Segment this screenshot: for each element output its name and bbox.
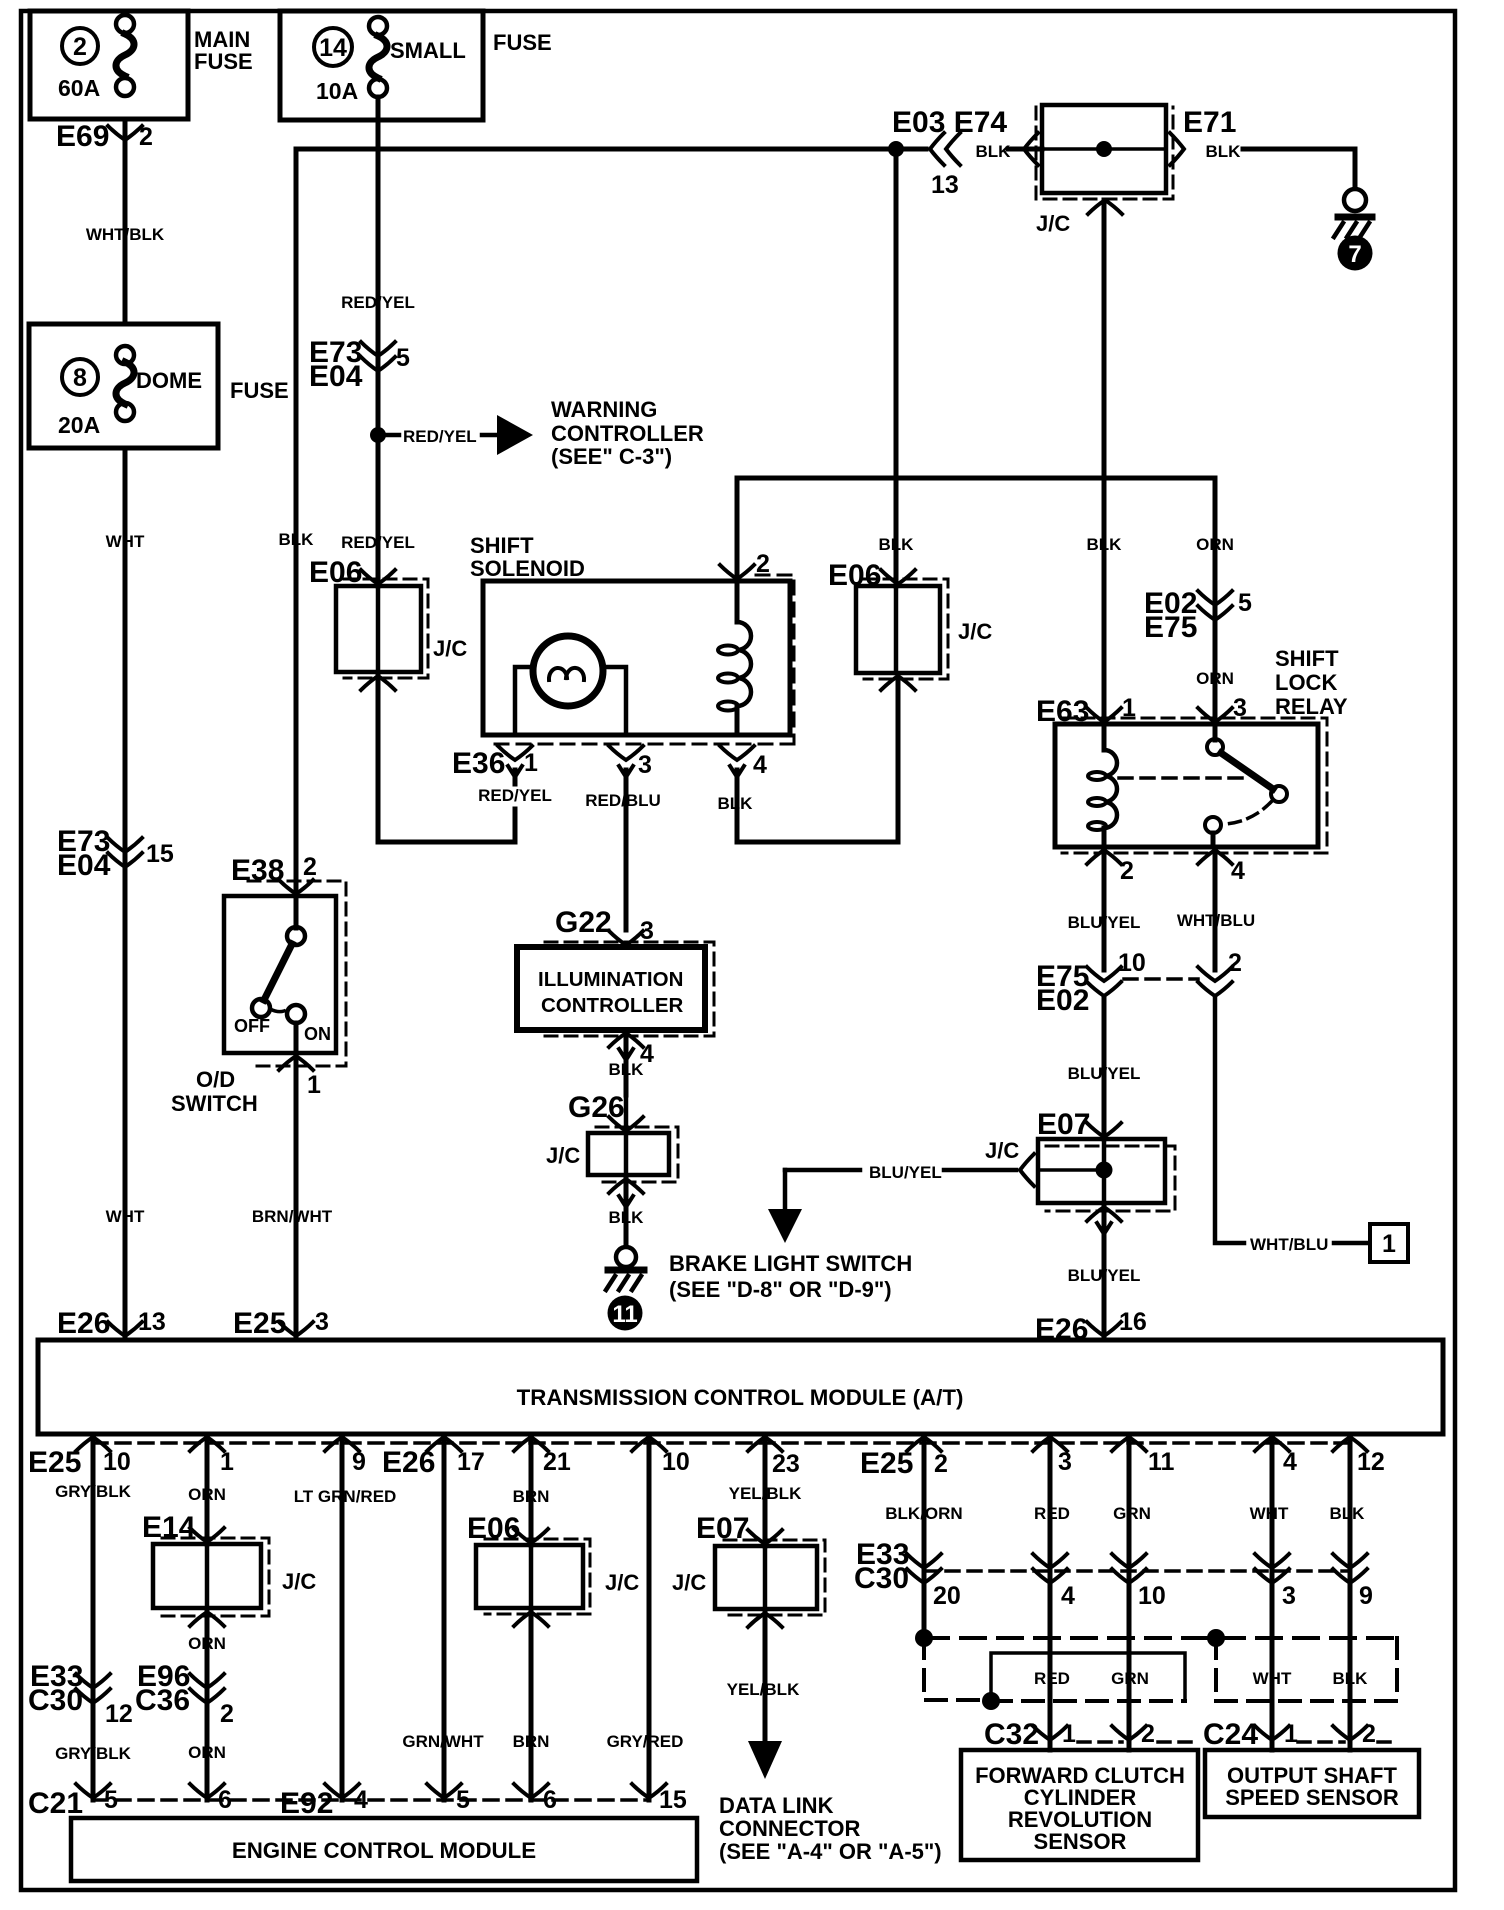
connector E92 pin 6 — [514, 1784, 548, 1798]
transmission control module box — [38, 1340, 1443, 1434]
wire dashed connector row below TCM — [93, 1441, 1350, 1445]
connector E26 pin 21 — [514, 1437, 548, 1451]
svg-text:BLK: BLK — [609, 1060, 645, 1079]
svg-text:SPEED SENSOR: SPEED SENSOR — [1225, 1785, 1399, 1810]
svg-text:2: 2 — [73, 33, 87, 61]
svg-text:10: 10 — [1138, 1582, 1166, 1610]
svg-text:10: 10 — [103, 1448, 131, 1476]
svg-text:10: 10 — [1118, 949, 1146, 977]
svg-text:FUSE: FUSE — [194, 49, 253, 74]
svg-text:5: 5 — [104, 1786, 118, 1814]
connector E26 pin 23 — [748, 1437, 782, 1451]
lamp symbol in solenoid — [533, 636, 603, 706]
connector E38 pin 1 — [279, 1056, 313, 1070]
wire WHT/BLU relay down — [1213, 850, 1218, 970]
connector E92 pin 4 — [325, 1784, 359, 1798]
svg-text:ORN: ORN — [188, 1743, 226, 1762]
connector E73/E04 pin 5 — [361, 342, 395, 356]
svg-text:60A: 60A — [58, 75, 100, 101]
wire BLK/ORN E25 pin2 down — [922, 1437, 927, 1638]
svg-text:10: 10 — [662, 1448, 690, 1476]
fuse box 14 SMALL FUSE — [280, 11, 483, 120]
svg-text:G22: G22 — [555, 906, 612, 939]
wire RED/YEL from J/C to E36 pin 1 — [378, 676, 515, 842]
svg-text:1: 1 — [1382, 1230, 1396, 1258]
connector C21 pin 5 — [76, 1784, 110, 1798]
connector E33/C30 pin 9 — [1333, 1554, 1367, 1568]
svg-text:11: 11 — [612, 1301, 637, 1328]
svg-text:9: 9 — [352, 1448, 366, 1476]
wire LT GRN/RED pin9 to E92 pin4 — [340, 1437, 345, 1800]
wire WHT/BLK — [123, 119, 128, 324]
svg-text:2: 2 — [1228, 949, 1242, 977]
svg-text:C30: C30 — [854, 1562, 909, 1595]
svg-text:4: 4 — [1061, 1582, 1075, 1610]
svg-text:BRN: BRN — [513, 1487, 550, 1506]
connector E36 dashed outline — [490, 575, 794, 744]
svg-text:13: 13 — [138, 1308, 166, 1336]
wire dashed shield drain bus — [924, 1636, 1397, 1640]
wire BLU/YEL to E07 J/C — [1102, 996, 1107, 1139]
svg-text:(SEE" C-3"): (SEE" C-3") — [551, 444, 672, 469]
svg-text:E36: E36 — [452, 747, 505, 780]
svg-text:5: 5 — [396, 344, 410, 372]
svg-text:C24: C24 — [1203, 1718, 1258, 1751]
svg-text:BLU/YEL: BLU/YEL — [1068, 913, 1141, 932]
svg-text:BLU/YEL: BLU/YEL — [1068, 1266, 1141, 1285]
svg-text:WHT/BLU: WHT/BLU — [1177, 911, 1255, 930]
connector E75/E02 pin 10 — [1087, 967, 1121, 981]
wire BRN pin21 to E06 J/C — [529, 1437, 534, 1545]
svg-text:C32: C32 — [984, 1718, 1039, 1751]
wire YEL/BLK to data link arrow — [763, 1613, 768, 1741]
wire BLK from pin 4 to E06 J/C — [737, 679, 898, 842]
svg-text:C36: C36 — [135, 1684, 190, 1717]
connector E33/C30 pin 20 — [907, 1554, 941, 1568]
svg-text:J/C: J/C — [546, 1143, 580, 1168]
svg-text:2: 2 — [1362, 1720, 1376, 1748]
svg-text:J/C: J/C — [605, 1570, 639, 1595]
svg-text:5: 5 — [1238, 589, 1252, 617]
svg-text:GRY/BLK: GRY/BLK — [55, 1744, 132, 1763]
connector E92 pin 15 — [632, 1784, 666, 1798]
svg-text:13: 13 — [931, 171, 959, 199]
relay coil — [1102, 724, 1107, 750]
svg-text:FUSE: FUSE — [230, 378, 289, 403]
svg-text:11: 11 — [1148, 1448, 1175, 1476]
svg-text:4: 4 — [1283, 1448, 1297, 1476]
svg-text:3: 3 — [315, 1308, 329, 1336]
svg-text:E26: E26 — [382, 1446, 435, 1479]
svg-text:7: 7 — [1348, 241, 1361, 268]
connector E25 pin 4 — [1255, 1437, 1289, 1451]
svg-text:CONNECTOR: CONNECTOR — [719, 1816, 860, 1841]
svg-text:BLU/YEL: BLU/YEL — [1068, 1064, 1141, 1083]
wire YEL/BLK pin23 to E07 J/C — [763, 1437, 768, 1546]
svg-text:YEL/BLK: YEL/BLK — [727, 1680, 800, 1699]
svg-text:WHT/BLK: WHT/BLK — [86, 225, 165, 244]
svg-text:G26: G26 — [568, 1091, 625, 1124]
svg-text:J/C: J/C — [985, 1138, 1019, 1163]
svg-text:8: 8 — [73, 364, 87, 392]
svg-text:1: 1 — [307, 1071, 321, 1099]
svg-text:WHT/BLU: WHT/BLU — [1250, 1235, 1328, 1254]
svg-text:1: 1 — [220, 1448, 234, 1476]
node shield drain left — [915, 1629, 933, 1647]
svg-text:12: 12 — [1357, 1448, 1385, 1476]
svg-text:J/C: J/C — [1036, 211, 1070, 236]
svg-text:9: 9 — [1359, 1582, 1373, 1610]
brake light switch arrow — [783, 1170, 788, 1209]
svg-text:GRY/BLK: GRY/BLK — [55, 1482, 132, 1501]
connector E25 pin 3 — [279, 1322, 313, 1336]
svg-text:GRN/WHT: GRN/WHT — [402, 1732, 484, 1751]
svg-text:BRAKE LIGHT SWITCH: BRAKE LIGHT SWITCH — [669, 1251, 912, 1276]
svg-text:20: 20 — [933, 1582, 961, 1610]
svg-text:TRANSMISSION CONTROL MODULE (A: TRANSMISSION CONTROL MODULE (A/T) — [517, 1385, 964, 1410]
wire BLK E71 to E63 — [1102, 200, 1107, 724]
wire BLK vertical from top corner — [294, 149, 299, 896]
svg-text:RELAY: RELAY — [1275, 694, 1348, 719]
wire BLK to ground 11 — [624, 1179, 629, 1246]
wire GRN into C32 — [1127, 1653, 1132, 1750]
connector E69 pin 2 — [108, 126, 142, 140]
svg-text:E75: E75 — [1144, 611, 1197, 644]
svg-text:4: 4 — [753, 751, 767, 779]
wire ORN TCM pin1 to E14 — [205, 1437, 210, 1544]
shield box forward clutch sensor — [991, 1653, 1185, 1701]
connector E02/E75 pin 5 — [1198, 591, 1232, 605]
svg-text:SENSOR: SENSOR — [1034, 1829, 1127, 1854]
connector E63 pin 3 — [1198, 708, 1232, 722]
svg-text:BLK: BLK — [279, 530, 315, 549]
connector E73/E04 pin 15 — [108, 838, 142, 852]
wire BLK E25 pin12 down — [1348, 1437, 1353, 1653]
svg-text:J/C: J/C — [672, 1570, 706, 1595]
svg-text:6: 6 — [543, 1786, 557, 1814]
wire RED/YEL from fuse 14 — [376, 97, 381, 586]
connector G22 pin 4 — [609, 1033, 643, 1047]
svg-text:ENGINE CONTROL MODULE: ENGINE CONTROL MODULE — [232, 1838, 536, 1863]
svg-text:BLK: BLK — [1206, 142, 1242, 161]
svg-text:C21: C21 — [28, 1787, 83, 1820]
svg-text:15: 15 — [146, 840, 174, 868]
svg-text:WHT: WHT — [106, 532, 145, 551]
O/D switch contacts — [294, 896, 299, 928]
connector E25 pin 12 — [1333, 1437, 1367, 1451]
wire dashed drain to left shield — [924, 1638, 985, 1700]
svg-text:2: 2 — [1120, 857, 1134, 885]
connector E25 pin 9 — [325, 1437, 359, 1451]
wire BLU/YEL to E26 pin 16 — [1102, 1207, 1107, 1340]
node E03 junction — [888, 141, 904, 157]
svg-text:LT GRN/RED: LT GRN/RED — [294, 1487, 397, 1506]
connector E26 pin 16 — [1087, 1322, 1121, 1336]
output shaft speed sensor box — [1205, 1750, 1419, 1817]
wire RED/YEL branch to warning controller — [386, 433, 399, 438]
svg-text:1: 1 — [1062, 1720, 1076, 1748]
svg-text:SHIFT: SHIFT — [1275, 646, 1339, 671]
svg-text:ILLUMINATION: ILLUMINATION — [538, 968, 683, 991]
svg-text:2: 2 — [1141, 1720, 1155, 1748]
svg-text:4: 4 — [1231, 857, 1245, 885]
svg-text:BLK: BLK — [718, 794, 754, 813]
svg-text:RED/YEL: RED/YEL — [403, 427, 477, 446]
svg-text:BLK/ORN: BLK/ORN — [885, 1504, 962, 1523]
svg-text:E02: E02 — [1036, 984, 1089, 1017]
svg-text:SHIFT: SHIFT — [470, 533, 534, 558]
svg-text:WHT: WHT — [1250, 1504, 1289, 1523]
connector C24 pin 2 — [1333, 1726, 1367, 1740]
forward clutch cylinder revolution sensor box — [961, 1750, 1198, 1860]
svg-text:2: 2 — [139, 123, 153, 151]
svg-text:ORN: ORN — [1196, 669, 1234, 688]
svg-text:21: 21 — [543, 1448, 571, 1476]
connector E25 pin 3b — [1033, 1437, 1067, 1451]
svg-text:RED: RED — [1034, 1504, 1070, 1523]
svg-text:2: 2 — [934, 1450, 948, 1478]
svg-text:E26: E26 — [57, 1307, 110, 1340]
wire RED E25 pin3 down — [1048, 1437, 1053, 1653]
fuse box 2 MAIN FUSE — [30, 11, 188, 119]
svg-text:23: 23 — [772, 1450, 800, 1478]
svg-text:(SEE "A-4" OR "A-5"): (SEE "A-4" OR "A-5") — [719, 1839, 942, 1864]
shield box output shaft sensor — [1216, 1638, 1397, 1701]
wire WHT into C24 — [1270, 1653, 1275, 1750]
illumination controller box — [517, 947, 705, 1030]
svg-text:C30: C30 — [28, 1684, 83, 1717]
connector C21 pin 6 — [190, 1784, 224, 1798]
coil symbol in solenoid pin2-pin4 — [735, 581, 740, 622]
O/D switch box — [224, 896, 336, 1053]
svg-text:YEL/BLK: YEL/BLK — [729, 1484, 802, 1503]
svg-text:2: 2 — [220, 1700, 234, 1728]
junction box E71 J/C — [1042, 105, 1166, 193]
svg-text:BLK: BLK — [1087, 535, 1123, 554]
connector E26 pin 13 — [108, 1322, 142, 1336]
svg-text:DATA LINK: DATA LINK — [719, 1793, 834, 1818]
svg-text:3: 3 — [638, 751, 652, 779]
svg-text:E04: E04 — [309, 360, 363, 393]
connector E33/C30 pin 12 — [76, 1674, 110, 1688]
svg-text:3: 3 — [1282, 1582, 1296, 1610]
connector E25 pin 2 — [907, 1437, 941, 1451]
wire RED into C32 — [1048, 1653, 1053, 1750]
svg-text:BLK: BLK — [879, 535, 915, 554]
node shield drain right — [1207, 1629, 1225, 1647]
svg-text:BLK: BLK — [976, 142, 1012, 161]
svg-text:CONTROLLER: CONTROLLER — [541, 994, 684, 1017]
svg-text:10A: 10A — [316, 78, 358, 104]
connector (E75/E02 row) pin 2 — [1198, 967, 1232, 981]
svg-text:RED/YEL: RED/YEL — [341, 533, 415, 552]
svg-text:ORN: ORN — [188, 1485, 226, 1504]
wire BRN/WHT — [294, 1056, 299, 1340]
svg-text:OFF: OFF — [234, 1016, 270, 1036]
wire WHT E25 pin4 down — [1270, 1437, 1275, 1653]
svg-text:BRN/WHT: BRN/WHT — [252, 1207, 333, 1226]
svg-text:E04: E04 — [57, 849, 111, 882]
svg-text:CONTROLLER: CONTROLLER — [551, 421, 704, 446]
connector E63 pin 4 — [1198, 850, 1232, 864]
fuse element F2 — [116, 15, 134, 33]
svg-text:ORN: ORN — [1196, 535, 1234, 554]
connector E26 pin 17 — [427, 1437, 461, 1451]
svg-text:1: 1 — [1284, 1720, 1298, 1748]
svg-text:12: 12 — [105, 1700, 133, 1728]
svg-text:RED/YEL: RED/YEL — [341, 293, 415, 312]
svg-text:ORN: ORN — [188, 1634, 226, 1653]
svg-text:BLK: BLK — [1330, 1504, 1366, 1523]
ground G11 — [616, 1247, 636, 1267]
connector E92 pin 5 — [427, 1784, 461, 1798]
svg-text:17: 17 — [457, 1448, 485, 1476]
fuse element F8 — [116, 346, 134, 364]
svg-text:SOLENOID: SOLENOID — [470, 556, 585, 581]
svg-text:20A: 20A — [58, 412, 100, 438]
connector E36 pin 4 — [720, 746, 754, 760]
svg-text:E69: E69 — [56, 120, 109, 153]
connector E03 E74 pin 13 — [930, 133, 944, 165]
ground G7 — [1344, 189, 1366, 211]
svg-text:LOCK: LOCK — [1275, 670, 1337, 695]
svg-text:14: 14 — [319, 34, 347, 62]
svg-text:SMALL: SMALL — [390, 38, 466, 63]
svg-text:(SEE "D-8" OR "D-9"): (SEE "D-8" OR "D-9") — [669, 1277, 892, 1302]
wire dashed connector link — [1124, 977, 1198, 981]
svg-text:J/C: J/C — [958, 619, 992, 644]
wire WHT (left line down to TCM) — [123, 448, 128, 1340]
svg-text:RED/YEL: RED/YEL — [478, 786, 552, 805]
svg-text:ON: ON — [304, 1024, 331, 1044]
wire dashed connector row C21/E92 — [93, 1798, 649, 1802]
connector E36 pin 1 — [498, 746, 532, 760]
svg-text:GRY/RED: GRY/RED — [607, 1732, 684, 1751]
connector E96/C36 pin 2 — [190, 1674, 224, 1688]
wire BLK vertical from E03 node through bus — [894, 149, 899, 586]
svg-text:1: 1 — [524, 749, 538, 777]
svg-text:E07: E07 — [1037, 1108, 1090, 1141]
connector pin 2 top of solenoid — [735, 478, 740, 581]
connector E63 pin 2 — [1087, 850, 1121, 864]
wire horizontal bus y478 — [737, 476, 1215, 481]
fuse element F14 — [369, 17, 387, 35]
wire top horizontal BLK bus — [296, 147, 896, 152]
svg-text:E25: E25 — [233, 1307, 286, 1340]
svg-text:E25: E25 — [28, 1446, 81, 1479]
svg-text:GRN: GRN — [1113, 1504, 1151, 1523]
fuse box 8 DOME FUSE — [29, 324, 218, 448]
svg-text:BLK: BLK — [609, 1208, 645, 1227]
svg-text:WHT: WHT — [106, 1207, 145, 1226]
svg-text:SWITCH: SWITCH — [171, 1091, 258, 1116]
svg-text:15: 15 — [659, 1786, 687, 1814]
wire GRY/RED pin10 to E92 pin15 — [647, 1437, 652, 1800]
svg-text:FUSE: FUSE — [493, 30, 552, 55]
svg-text:BLU/YEL: BLU/YEL — [869, 1163, 942, 1182]
svg-text:J/C: J/C — [282, 1569, 316, 1594]
connector E36 pin 3 — [609, 746, 643, 760]
svg-text:5: 5 — [456, 1786, 470, 1814]
node junction RED/YEL branch — [370, 427, 386, 443]
wire WHT/BLU to circuit 1 — [1215, 996, 1244, 1243]
svg-text:16: 16 — [1119, 1308, 1147, 1336]
svg-text:E71: E71 — [1183, 106, 1236, 139]
wire GRN/WHT pin17 to E92 pin5 — [442, 1437, 447, 1800]
svg-text:WARNING: WARNING — [551, 397, 657, 422]
wire BLK into C24 — [1348, 1653, 1353, 1750]
svg-text:E03 E74: E03 E74 — [892, 106, 1007, 139]
svg-text:6: 6 — [218, 1786, 232, 1814]
wire RED/BLU from pin 3 to G22 — [624, 770, 629, 930]
svg-text:2: 2 — [303, 853, 317, 881]
wire GRY/BLK TCM to C21 — [91, 1437, 96, 1800]
shift lock relay box — [1055, 724, 1318, 847]
svg-text:E92: E92 — [280, 1787, 333, 1820]
wire BLU/YEL relay to E75/E02 — [1102, 850, 1107, 970]
connector E25 pin 1 — [190, 1437, 224, 1451]
wire ORN right bus drop — [1213, 478, 1218, 724]
svg-text:J/C: J/C — [433, 636, 467, 661]
svg-text:DOME: DOME — [136, 368, 202, 393]
wire GRN E25 pin11 down — [1127, 1437, 1132, 1653]
connector E33/C30 pin 10 — [1112, 1554, 1146, 1568]
svg-text:O/D: O/D — [196, 1067, 235, 1092]
engine control module box — [71, 1818, 697, 1881]
svg-text:E25: E25 — [860, 1447, 913, 1480]
connector E33/C30 pin 4 — [1033, 1554, 1067, 1568]
connector E25 pin 11 — [1112, 1437, 1146, 1451]
svg-text:BRN: BRN — [513, 1732, 550, 1751]
connector C32 pin 2 — [1112, 1726, 1146, 1740]
wire BRN to E92 pin 6 — [529, 1612, 534, 1800]
connector E26 pin 10 — [632, 1437, 666, 1451]
connector E33/C30 pin 3 — [1255, 1554, 1289, 1568]
connector E25 pin 10 — [76, 1437, 110, 1451]
svg-text:RED/BLU: RED/BLU — [585, 791, 661, 810]
svg-text:4: 4 — [354, 1786, 368, 1814]
node box 1 — [1370, 1224, 1408, 1262]
svg-text:3: 3 — [1058, 1448, 1072, 1476]
relay switch — [1213, 724, 1218, 740]
wire ORN to E96/C36 — [205, 1612, 210, 1800]
